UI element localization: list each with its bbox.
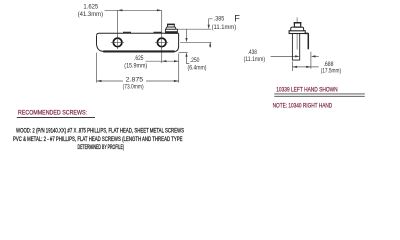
end view web (U channel): [292, 34, 299, 61]
bottom edge thick band: [103, 50, 174, 52]
arrow 1.625 left: [118, 9, 123, 11]
knob side view cap top bar: [167, 23, 175, 25]
double underline: [274, 94, 365, 96]
wire: tail below .385 lower arrow: [209, 42, 211, 47]
wire: dimension line 2.875 left segment: [97, 80, 123, 82]
wire: hole centerline extension right: [180, 41, 211, 43]
wire: .250 lower tail and foot: [187, 56, 190, 63]
end view cap: [294, 23, 300, 28]
arrow 1.625 right: [157, 9, 162, 11]
bump tab 2 on top edge: [154, 32, 161, 33]
svg-text:.438: .438: [248, 50, 258, 56]
wire: bottom edge extension right: [179, 51, 188, 53]
svg-text:.688: .688: [324, 62, 334, 68]
svg-text:NOTE: 10340 RIGHT HAND: NOTE: 10340 RIGHT HAND: [273, 102, 333, 109]
arrow .688 left: [292, 66, 297, 68]
knob side view cap: [168, 24, 175, 27]
svg-text:10339 LEFT HAND SHOWN: 10339 LEFT HAND SHOWN: [276, 87, 338, 94]
arrow right counterpart (left-pointing): [311, 55, 316, 57]
svg-text:(11.1mm): (11.1mm): [212, 25, 237, 31]
svg-text:.250: .250: [190, 58, 200, 64]
wire: leader bracket of .385: [209, 19, 213, 25]
svg-text:(73.0mm): (73.0mm): [123, 84, 144, 90]
svg-text:(11.1mm): (11.1mm): [244, 57, 266, 63]
wire: right edge: [178, 33, 180, 47]
arrow 2.875 right: [174, 80, 179, 82]
svg-text:RECOMMENDED SCREWS:: RECOMMENDED SCREWS:: [18, 110, 87, 117]
arrow .385 bottom (up): [209, 42, 211, 46]
svg-text:2.875: 2.875: [126, 77, 144, 83]
wire: left extension line of .688: [291, 62, 293, 72]
labels: [78, 5, 341, 91]
svg-text:(15.9mm): (15.9mm): [124, 64, 147, 70]
svg-text:(6.4mm): (6.4mm): [188, 66, 207, 72]
svg-text:.385: .385: [214, 17, 225, 23]
end view flange: [291, 27, 304, 31]
wire: dimension line 1.625: [105, 9, 162, 11]
svg-text:(17.5mm): (17.5mm): [321, 68, 341, 74]
arrow .438 (right-pointing): [295, 55, 300, 57]
hole 1: [113, 38, 122, 47]
wire: bottom-right corner radius: [174, 46, 179, 51]
wire: knob-top extension line: [178, 28, 211, 30]
bump tab 1 on top edge: [123, 32, 130, 33]
svg-text:F: F: [234, 13, 240, 23]
arrow .625 left: [162, 60, 167, 62]
wire: extension line through hole 2 down below part: [161, 10, 163, 63]
end view plate: [289, 31, 305, 34]
wire: dimension line .625: [146, 60, 179, 62]
wire: centerline: [296, 17, 298, 49]
wire: tail right of .438 arrow: [315, 55, 319, 57]
wire: right extension line of .688: [310, 52, 312, 69]
svg-text:.625: .625: [134, 56, 144, 62]
svg-text:PVC & METAL: 2 - #7 PHILLIPS,: PVC & METAL: 2 - #7 PHILLIPS, FLAT HEAD …: [13, 136, 183, 143]
wire: extension line through hole 1: [117, 10, 119, 49]
wire: left edge: [96, 36, 98, 44]
end view lip hook: [305, 33, 308, 49]
arrow .688 right: [306, 66, 311, 68]
arrow .250 bottom (up): [185, 53, 187, 57]
end view cap top bar: [294, 22, 302, 24]
arrow .250 top (down): [185, 38, 187, 42]
knob side view flange: [166, 27, 176, 29]
wire: left extension line below part: [96, 53, 98, 83]
arrow 2.875 left: [97, 80, 102, 82]
wire: .250 upper arrow tail: [186, 29, 188, 38]
wire: bottom-left corner radius: [97, 44, 104, 52]
arrow .385 top (down): [208, 25, 210, 29]
hole 2: [157, 38, 166, 47]
svg-text:1.625: 1.625: [83, 5, 98, 11]
wire: leader of .438: [271, 55, 296, 57]
svg-text:WOOD: 2 (P/N 19140.XX) #7 X .8: WOOD: 2 (P/N 19140.XX) #7 X .875 PHILLIP…: [16, 128, 184, 135]
wire: dimension line .688 with tail: [292, 66, 318, 68]
svg-text:(41.3mm): (41.3mm): [78, 12, 103, 18]
heading underline: [17, 117, 95, 119]
handle body side view: [97, 33, 179, 51]
wire: top edge with left corner: [97, 33, 179, 36]
wire: dimension line 2.875 right segment: [146, 80, 179, 82]
arrow .625 right: [174, 60, 179, 62]
wire: right extension line below part: [178, 53, 180, 82]
knob side view base plate: [165, 29, 177, 33]
svg-text:DETERMINED BY PROFILE): DETERMINED BY PROFILE): [78, 144, 125, 151]
